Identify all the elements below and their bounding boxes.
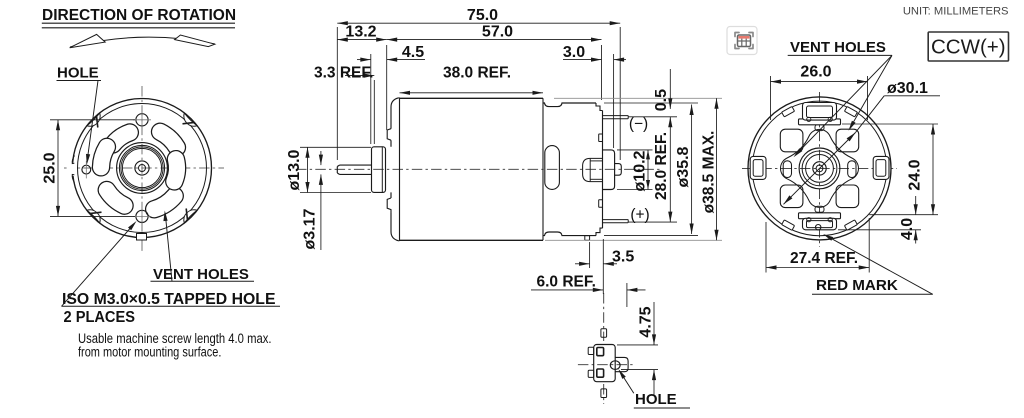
dimension 28.0 REF. (653, 117, 672, 222)
svg-text:2 PLACES: 2 PLACES (64, 309, 136, 326)
rotation double arrow (70, 37, 215, 47)
svg-text:3.3 REF.: 3.3 REF. (314, 64, 373, 81)
svg-text:3.5: 3.5 (612, 248, 634, 265)
dimension o35.8 (675, 105, 694, 235)
svg-text:HOLE: HOLE (57, 65, 99, 82)
svg-text:57.0: 57.0 (482, 24, 513, 41)
red mark dot (816, 225, 821, 230)
terminal bottom (603, 220, 629, 223)
tapped hole bottom (136, 210, 148, 222)
dimension 3.0 (563, 44, 626, 148)
extension terminal bottom (628, 221, 677, 223)
rear corner clip top (596, 103, 603, 111)
svg-text:27.4 REF.: 27.4 REF. (790, 250, 858, 267)
internal bearing silhouette (583, 158, 603, 181)
svg-text:ø3.17: ø3.17 (302, 208, 319, 249)
vent capsule slot on housing (545, 146, 560, 190)
left tab upper (588, 347, 594, 354)
outer rim circle (73, 99, 212, 238)
centerline horizontal (742, 167, 897, 169)
side tab left (9 oclock) (750, 156, 766, 179)
centerline horizontal (64, 167, 224, 169)
vent slots (6 bean shaped) (160, 132, 177, 148)
rim seam gap left (67, 163, 76, 177)
shaft (813, 162, 826, 175)
svg-text:(+): (+) (630, 207, 649, 224)
outer rim circle (748, 97, 891, 240)
svg-text:VENT HOLES: VENT HOLES (790, 39, 886, 56)
detail centerline horizontal (578, 364, 634, 366)
tilted rim tabs (844, 106, 857, 116)
side slots W/E (783, 161, 791, 178)
terminal lug right (615, 357, 628, 371)
svg-text:ø30.1: ø30.1 (887, 80, 928, 97)
label HOLE (terminal) (618, 369, 690, 408)
svg-text:4.0: 4.0 (899, 218, 916, 240)
rim scallop notches at diagonals (184, 113, 197, 126)
extension line can bottom (545, 239, 722, 241)
dimension o30.1 with diameter leader (784, 80, 941, 205)
vent petals (836, 129, 859, 152)
dimension 38.0 REF. (400, 64, 544, 95)
rear bearing boss (603, 150, 615, 190)
svg-text:ø35.8: ø35.8 (675, 146, 692, 187)
shoulder arcs (835, 110, 837, 112)
inner rim circle (752, 101, 887, 236)
svg-text:ø10.2: ø10.2 (632, 150, 649, 191)
side tab right (3 oclock) (873, 156, 889, 179)
label DIRECTION OF ROTATION (42, 7, 236, 48)
svg-text:ISO M3.0×0.5 TAPPED HOLE: ISO M3.0×0.5 TAPPED HOLE (62, 291, 276, 308)
svg-text:from motor mounting surface.: from motor mounting surface. (78, 344, 221, 359)
left view: motor front face (64, 86, 224, 251)
contact square lower (597, 369, 604, 377)
dimension 3.3 REF. (314, 64, 374, 144)
svg-text:13.2: 13.2 (345, 24, 376, 41)
rear face (602, 111, 604, 229)
bottom small tab (3.5 ref) (585, 236, 590, 241)
centerline vertical (819, 92, 821, 247)
dimension 25.0 (42, 120, 136, 217)
middle view: motor side (296, 98, 660, 241)
dimension 4.75 (617, 302, 658, 396)
svg-text:6.0 REF.: 6.0 REF. (537, 274, 596, 291)
left tab lower (588, 370, 594, 377)
dimension o38.5 MAX. (701, 98, 719, 240)
CCW(+) box (928, 32, 1008, 61)
svg-text:ø13.0: ø13.0 (286, 149, 303, 190)
front endbell outline (391, 98, 399, 129)
svg-text:HOLE: HOLE (635, 391, 677, 408)
svg-text:75.0: 75.0 (467, 7, 498, 24)
svg-text:38.0 REF.: 38.0 REF. (443, 64, 511, 81)
svg-text:25.0: 25.0 (42, 152, 59, 183)
capture icon (727, 27, 757, 55)
bushing (372, 147, 386, 193)
terminal detail view (bottom) (578, 293, 634, 404)
rear corner clip bottom (596, 228, 603, 236)
svg-text:3.0: 3.0 (563, 44, 585, 61)
terminal top (603, 116, 629, 119)
svg-text:(−): (−) (629, 116, 648, 133)
dimension 75.0 (337, 7, 620, 160)
svg-text:0.5: 0.5 (653, 89, 670, 111)
small tab rects on rear face (599, 134, 603, 142)
brush cap bottom (799, 213, 841, 219)
inner rim circle (78, 104, 207, 233)
can (main cylinder) (398, 98, 401, 241)
label ISO M3.0x0.5 TAPPED HOLE / 2 PLACES (62, 221, 281, 326)
brush cap top (799, 119, 841, 125)
svg-text:CCW(+): CCW(+) (931, 36, 1006, 59)
dimension o13.0 (286, 147, 371, 192)
dimension 27.4 REF. (766, 218, 869, 273)
svg-text:RED MARK: RED MARK (816, 277, 898, 294)
svg-text:VENT HOLES: VENT HOLES (153, 266, 249, 283)
dimension o3.17 (302, 151, 324, 250)
top tab (601, 329, 607, 338)
center boss rings (117, 143, 168, 194)
svg-text:24.0: 24.0 (907, 159, 924, 190)
rim bottom notch square (137, 234, 147, 241)
dimension 4.5 (357, 44, 425, 144)
svg-text:ø38.5 MAX.: ø38.5 MAX. (701, 131, 718, 214)
dimension 4.0 (838, 196, 921, 244)
bottom tab (601, 389, 607, 398)
dimension 57.0 (387, 24, 602, 100)
detail centerline vertical (603, 293, 605, 341)
boss rings (799, 148, 840, 189)
label RED MARK (812, 234, 933, 294)
label VENT HOLES (left view) (151, 211, 255, 284)
front mounting tab bottom (387, 198, 391, 213)
svg-text:4.5: 4.5 (402, 44, 424, 61)
svg-text:28.0 REF.: 28.0 REF. (653, 132, 670, 200)
right view: motor rear (742, 92, 897, 247)
shaft hole (135, 161, 149, 175)
dimension 26.0 (771, 64, 868, 121)
terminal hole (610, 361, 620, 370)
extension line can top (grey) (554, 97, 722, 99)
svg-text:26.0: 26.0 (800, 64, 831, 81)
dimension 13.2 (337, 24, 386, 130)
extension housing bottom (604, 235, 698, 237)
dimension 3.5 (575, 239, 634, 294)
shaft end nub (615, 164, 622, 176)
bracket body (594, 345, 616, 382)
centerline vertical (141, 86, 143, 251)
small hole (9 oclock) (82, 165, 91, 174)
tapped hole top (136, 114, 148, 126)
svg-text:DIRECTION OF ROTATION: DIRECTION OF ROTATION (42, 7, 236, 24)
extension housing top (604, 102, 698, 104)
svg-text:4.75: 4.75 (638, 306, 655, 337)
contact square upper (597, 348, 604, 356)
extension terminal top (628, 116, 677, 118)
dimension 24.0 (842, 124, 938, 215)
dimension 0.5 (653, 69, 672, 111)
hub clover contour (781, 129, 859, 207)
label VENT HOLES (right view) (788, 39, 892, 157)
dimension 6.0 REF. (531, 274, 646, 308)
small slots N/S (815, 125, 824, 131)
shaft (337, 165, 372, 174)
centerline (296, 168, 660, 170)
svg-text:UNIT: MILLIMETERS: UNIT: MILLIMETERS (903, 5, 1009, 17)
rear housing outline (543, 103, 596, 107)
note: usable machine screw length (78, 331, 272, 360)
front mounting tab top (387, 129, 391, 141)
label HOLE (left view) (57, 65, 102, 165)
dimension o10.2 (617, 150, 653, 192)
